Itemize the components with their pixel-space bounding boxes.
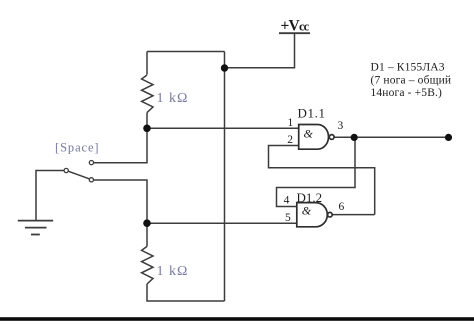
svg-text:+Vcc: +Vcc — [281, 18, 310, 35]
svg-text:[Space]: [Space] — [55, 140, 99, 154]
svg-text:&: & — [304, 127, 314, 141]
svg-text:D1.1: D1.1 — [298, 106, 326, 121]
svg-text:4: 4 — [284, 195, 290, 207]
svg-text:1 kΩ: 1 kΩ — [157, 264, 189, 279]
svg-text:5: 5 — [285, 212, 291, 224]
svg-text:(7 нога – общий: (7 нога – общий — [371, 74, 452, 86]
svg-text:D1 – К155ЛА3: D1 – К155ЛА3 — [371, 62, 445, 74]
svg-text:6: 6 — [339, 201, 345, 213]
svg-text:3: 3 — [338, 120, 344, 132]
svg-text:14нога - +5В.): 14нога - +5В.) — [371, 87, 443, 99]
svg-text:1: 1 — [288, 117, 294, 129]
svg-text:2: 2 — [287, 134, 293, 146]
svg-text:&: & — [302, 204, 312, 218]
svg-text:1 kΩ: 1 kΩ — [157, 91, 189, 106]
